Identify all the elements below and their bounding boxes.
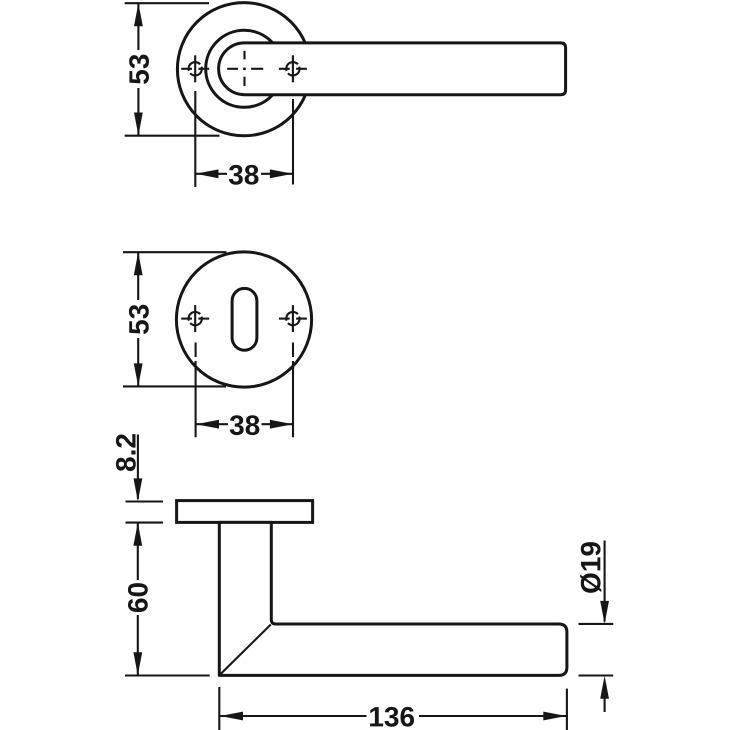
rosette neck inner circle (view 1) (206, 30, 283, 107)
dim 53 (view 2) dimension line (137, 252, 139, 300)
dim 136 (view 3) dimension line (220, 715, 367, 717)
dim 53 (view 2) down arrow (134, 363, 143, 386)
dim 38 (view 1) label (229, 165, 259, 185)
dim 53 (view 2) label (129, 305, 149, 334)
dim 60 (view 3) bottom extension line (125, 674, 210, 676)
dim 8.2 (view 3) dimension line with down arrow (137, 435, 139, 500)
dim 136 (view 3) label (370, 707, 414, 727)
dim 53 (view 1) down arrow (134, 113, 143, 136)
dim 136 (view 3) left extension line (218, 687, 220, 730)
dim 60 (view 3) down arrow (133, 652, 142, 675)
dim 60 (view 3) label (128, 583, 148, 612)
dim 53 (view 2) bottom extension line (123, 385, 226, 387)
dim 136 (view 3) right arrow (543, 712, 566, 721)
right hole centerline dash below (view 2) (292, 343, 294, 358)
left hole marker (view 2) (181, 305, 209, 332)
dim 53 (view 2) top extension line (123, 251, 227, 253)
dim 53 (view 2) up arrow (134, 252, 143, 275)
dim 53 (view 1) top extension line (125, 2, 209, 4)
dim 8.2 (view 3) top extension line (126, 500, 164, 502)
left hole marker (view 1) (181, 55, 209, 82)
extension line left of 38 dim (view 1) (194, 91, 196, 187)
dim Ø19 (view 3) top extension line (579, 623, 614, 625)
dim 53 (view 1) up arrow (134, 3, 143, 26)
dim 38 (view 2) left arrow (196, 420, 219, 429)
escutcheon outer circle (view 2) (176, 252, 311, 387)
dim 60 (view 3) up arrow (133, 523, 142, 546)
dim 8.2 (view 3) label (116, 434, 136, 471)
dim 136 (view 3) right extension line (566, 689, 568, 730)
rosette outer circle (view 1) (177, 3, 310, 136)
dim 53 (view 1) bottom extension line (125, 135, 220, 137)
dim Ø19 (view 3) label (580, 542, 601, 593)
spindle center crosshair (view 1) (227, 51, 263, 86)
dim 38 (view 1) left arrow (196, 169, 219, 178)
extension line left of 38 dim (view 2) (195, 361, 197, 437)
lever side profile (view 3) (219, 522, 567, 675)
extension line right of 38 dim (view 2) (292, 361, 294, 437)
dim 38 (view 1) right arrow (270, 169, 293, 178)
dim Ø19 (view 3) dimension line with down arrow (604, 541, 606, 622)
dim 38 (view 1) dimension line (195, 173, 227, 175)
dim 53 (view 1) label (129, 55, 149, 84)
dim Ø19 (view 3) bottom extension line (579, 674, 614, 676)
dim 38 (view 2) dimension line (196, 423, 228, 425)
dim 136 (view 3) left arrow (220, 712, 243, 721)
dim Ø19 (view 3) bottom up arrow with tail (600, 676, 609, 699)
rose plate side profile (view 3) (177, 501, 313, 523)
dim 53 (view 1) dimension line (137, 3, 139, 50)
dim 8.2 (view 3) bottom extension line (126, 522, 164, 524)
dim 38 (view 2) right arrow (270, 420, 293, 429)
dim 60 (view 3) dimension line (137, 523, 139, 580)
right hole marker (view 1) (279, 55, 307, 82)
extension line right of 38 dim (view 1) (292, 99, 294, 185)
right hole marker (view 2) (279, 305, 307, 332)
left hole centerline dash below (view 2) (195, 343, 197, 358)
dim 38 (view 2) label (230, 415, 260, 435)
bend miter line (view 3) (220, 625, 271, 675)
keyhole slot (view 2) (232, 288, 257, 350)
lever handle outline (view 1) (219, 43, 566, 95)
